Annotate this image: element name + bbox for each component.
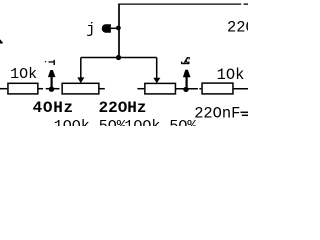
svg-text:1OOk 5O%: 1OOk 5O% — [124, 118, 197, 126]
wire right wiper stem — [156, 58, 158, 79]
wire top rail — [118, 3, 241, 5]
capacitor C2 plate bottom (cut at right edge) — [242, 114, 248, 116]
resistor R1 10k — [8, 83, 38, 94]
wire splitter horizontal branch — [81, 57, 157, 59]
wire R2 left lead — [199, 88, 201, 90]
terminal k arrowhead (up) — [183, 70, 191, 78]
wire R1 right lead — [37, 88, 43, 90]
wire input lead at left edge — [0, 88, 7, 90]
svg-text:1OOk 5O%: 1OOk 5O% — [54, 118, 127, 126]
P1 wiper arrowhead (down) — [77, 77, 84, 83]
svg-text:4OHz: 4OHz — [33, 99, 74, 117]
wire terminal d stem — [50, 77, 52, 88]
junction dot node d — [49, 87, 54, 92]
wire R2 right lead to edge — [232, 88, 248, 90]
potentiometer P2 body (220Hz) — [145, 83, 176, 94]
wire top rail stub to capacitor (cut off) — [244, 3, 248, 5]
terminal d arrowhead (up) — [48, 70, 56, 77]
svg-text:j: j — [86, 21, 95, 38]
node k label (rotated glyph) — [181, 63, 190, 64]
capacitor C2 plate top (cut at right edge) — [241, 111, 249, 113]
node d label (rotated glyph) — [45, 61, 46, 62]
wire P2 right lead / node k segment — [175, 88, 198, 90]
junction dot at terminal j — [116, 26, 121, 31]
svg-text:22OnF: 22OnF — [194, 105, 240, 123]
terminal j arrow (filled pentagon pointing left) — [102, 24, 111, 32]
svg-text:1Ok: 1Ok — [10, 66, 37, 83]
wire terminal k stem — [186, 77, 188, 88]
P2 wiper arrowhead (down) — [153, 78, 160, 84]
potentiometer P1 body (40Hz) — [62, 83, 99, 94]
resistor R2 10k — [202, 83, 233, 94]
wire terminal j to vertical rail — [111, 27, 120, 29]
wire left wiper stem — [80, 58, 82, 79]
svg-text:22OHz: 22OHz — [99, 99, 147, 117]
wire P2 left lead — [137, 88, 144, 90]
junction dot node k — [183, 87, 188, 92]
junction dot splitter — [116, 55, 121, 60]
wire P1 right lead — [98, 88, 105, 90]
svg-text:1Ok: 1Ok — [217, 66, 245, 84]
wire main vertical from top rail to splitter — [118, 4, 120, 57]
svg-text:22OnF: 22OnF — [227, 18, 248, 36]
wire node d segment — [46, 88, 60, 90]
node A partial glyph at left edge — [0, 39, 3, 43]
